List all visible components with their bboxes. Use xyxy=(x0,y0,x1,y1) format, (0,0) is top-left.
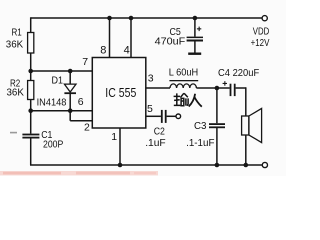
wire pin3 output xyxy=(146,87,170,89)
capacitor C3 top lead xyxy=(216,88,218,123)
node C3 ground junction xyxy=(215,163,220,168)
capacitor C5 top plate xyxy=(187,37,203,39)
capacitor C5 lower lead xyxy=(194,41,196,52)
terminal VDD circle xyxy=(262,16,267,21)
node pin4 rail junction xyxy=(129,16,134,21)
stray mark left margin xyxy=(10,132,17,134)
capacitor C1 top plate xyxy=(22,134,39,136)
wire pin1 to ground xyxy=(119,128,121,165)
capacitor C5 top lead xyxy=(194,18,196,37)
svg-text:C3: C3 xyxy=(194,120,207,132)
svg-text:470uF: 470uF xyxy=(155,36,186,48)
wire pin5 xyxy=(146,115,161,117)
wire down to speaker xyxy=(245,87,247,116)
diode D1 triangle xyxy=(64,84,76,92)
capacitor C2 left plate xyxy=(161,110,163,123)
svg-text:200P: 200P xyxy=(43,138,63,150)
svg-text:2: 2 xyxy=(84,122,90,134)
svg-text:R1: R1 xyxy=(12,26,22,38)
speaker LS cone xyxy=(249,108,262,142)
svg-text:L 60uH: L 60uH xyxy=(169,67,198,79)
svg-text:C4 220uF: C4 220uF xyxy=(218,67,259,79)
wire C1 bottom lead xyxy=(30,138,32,165)
resistor R1 xyxy=(28,33,34,54)
wire bottom ground rail xyxy=(30,164,262,166)
diode D1 cathode lead xyxy=(69,94,71,111)
svg-text:.1uF: .1uF xyxy=(145,137,166,149)
capacitor C5 plus sign xyxy=(197,28,201,29)
wire pin7 net xyxy=(31,70,93,72)
capacitor C3 top plate xyxy=(209,123,225,125)
node pin8 rail junction xyxy=(107,16,112,21)
node D1 cathode junction xyxy=(68,108,73,113)
diode D1 anode lead xyxy=(69,71,71,84)
svg-text:IN4148: IN4148 xyxy=(37,96,67,108)
svg-text:C2: C2 xyxy=(154,126,165,138)
node output L C3 junction xyxy=(215,86,220,91)
svg-text:5: 5 xyxy=(147,103,153,115)
wire R1 bottom to node xyxy=(30,53,32,81)
wire R2 bottom to C1 xyxy=(30,100,32,134)
wire left branch top (rail to R1) xyxy=(30,17,32,32)
node pin1 ground junction xyxy=(118,163,123,168)
capacitor C4 right plate xyxy=(234,84,236,96)
wire C4 right lead xyxy=(236,87,246,89)
node input label 输入 (hand drawn strokes) xyxy=(174,93,202,107)
wire pin6 net xyxy=(31,110,93,112)
wire pin2 net xyxy=(70,120,92,122)
capacitor C3 bottom plate xyxy=(209,126,225,128)
speaker LS body xyxy=(242,116,249,135)
svg-text:+12V: +12V xyxy=(251,37,270,49)
svg-text:1: 1 xyxy=(111,131,117,143)
wire speaker to ground rail xyxy=(245,135,247,165)
capacitor C5 end bar xyxy=(188,53,201,55)
capacitor C1 bottom plate xyxy=(22,137,39,139)
wire pin6 to pin2 vertical xyxy=(69,111,71,121)
wire L to C4 node xyxy=(196,87,229,89)
capacitor C2 right plate xyxy=(165,110,167,123)
svg-text:8: 8 xyxy=(100,45,106,57)
svg-text:36K: 36K xyxy=(7,87,24,99)
node R1 R2 pin7 junction xyxy=(28,69,33,74)
svg-text:3: 3 xyxy=(148,73,154,85)
op-amp U1 IC555 body xyxy=(92,58,146,129)
wire top rail VDD xyxy=(31,17,262,19)
svg-text:7: 7 xyxy=(82,56,88,68)
wire pin8 to rail xyxy=(109,18,111,58)
resistor R2 xyxy=(28,81,34,100)
diode D1 cathode bar xyxy=(64,92,76,94)
terminal ground output circle xyxy=(262,162,267,167)
node D1 anode junction xyxy=(68,69,73,74)
svg-text:IC 555: IC 555 xyxy=(105,85,136,100)
svg-text:.1-1uF: .1-1uF xyxy=(186,137,214,149)
node R2 C1 pin6 junction xyxy=(28,108,33,113)
terminal input circle xyxy=(176,114,181,119)
pink watermark smudge bottom xyxy=(0,171,158,175)
node speaker ground junction xyxy=(244,163,249,168)
capacitor C5 bottom plate xyxy=(187,40,203,42)
capacitor C4 plus sign xyxy=(223,83,227,84)
svg-text:D1: D1 xyxy=(52,75,64,87)
wire pin4 to rail xyxy=(130,18,132,58)
inductor L1 coil xyxy=(170,84,196,88)
inductor label underline xyxy=(169,80,198,81)
capacitor C3 bottom lead xyxy=(216,128,218,165)
svg-text:4: 4 xyxy=(124,45,130,57)
wire C2 to input terminal xyxy=(167,115,176,117)
node C5 rail junction xyxy=(193,16,198,21)
svg-text:6: 6 xyxy=(78,96,84,108)
capacitor C4 left plate xyxy=(230,84,232,96)
svg-text:36K: 36K xyxy=(6,38,23,50)
svg-text:VDD: VDD xyxy=(253,26,270,38)
